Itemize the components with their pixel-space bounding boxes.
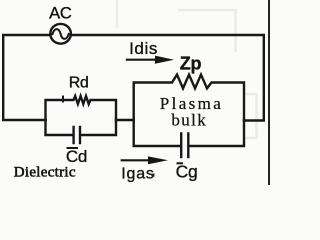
svg-text:Cg: Cg — [176, 162, 198, 182]
svg-text:Zp: Zp — [180, 54, 202, 74]
svg-text:Cd: Cd — [66, 147, 87, 166]
svg-text:Idis: Idis — [129, 39, 158, 58]
svg-text:Rd: Rd — [69, 74, 88, 91]
svg-text:bulk: bulk — [171, 111, 207, 130]
svg-text:Igas: Igas — [121, 166, 154, 183]
svg-text:Dielectric: Dielectric — [14, 165, 76, 181]
svg-text:AC: AC — [49, 4, 72, 22]
